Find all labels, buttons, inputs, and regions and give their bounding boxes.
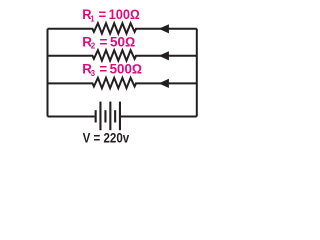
battery V : cell 2 short plate — [104, 110, 106, 122]
wire: right vertical rail — [196, 29, 198, 117]
wire: left vertical rail — [47, 29, 49, 117]
battery V : cell 3 long plate — [119, 102, 121, 131]
wire: battery to bottom right — [121, 116, 197, 118]
arrow on branch 2 (current direction) — [159, 51, 169, 60]
svg-text:V = 220v: V = 220v — [83, 131, 130, 146]
svg-text:R3 = 500Ω: R3 = 500Ω — [82, 62, 142, 78]
battery V : cell 1 short plate — [95, 110, 97, 122]
arrow on branch 3 (current direction) — [159, 79, 169, 88]
svg-text:R1 = 100Ω: R1 = 100Ω — [82, 7, 139, 24]
arrow on branch 1 (current direction) — [159, 24, 169, 33]
resistor R1 — [48, 23, 197, 33]
wire: bottom left to battery — [48, 116, 95, 118]
resistor R2 — [48, 50, 197, 60]
svg-text:R2 = 50Ω: R2 = 50Ω — [82, 34, 135, 50]
battery V : cell 3 short plate — [114, 110, 116, 122]
battery V : cell 1 long plate — [99, 102, 101, 131]
battery V : cell 2 long plate — [109, 102, 111, 131]
resistor R3 — [48, 78, 197, 88]
